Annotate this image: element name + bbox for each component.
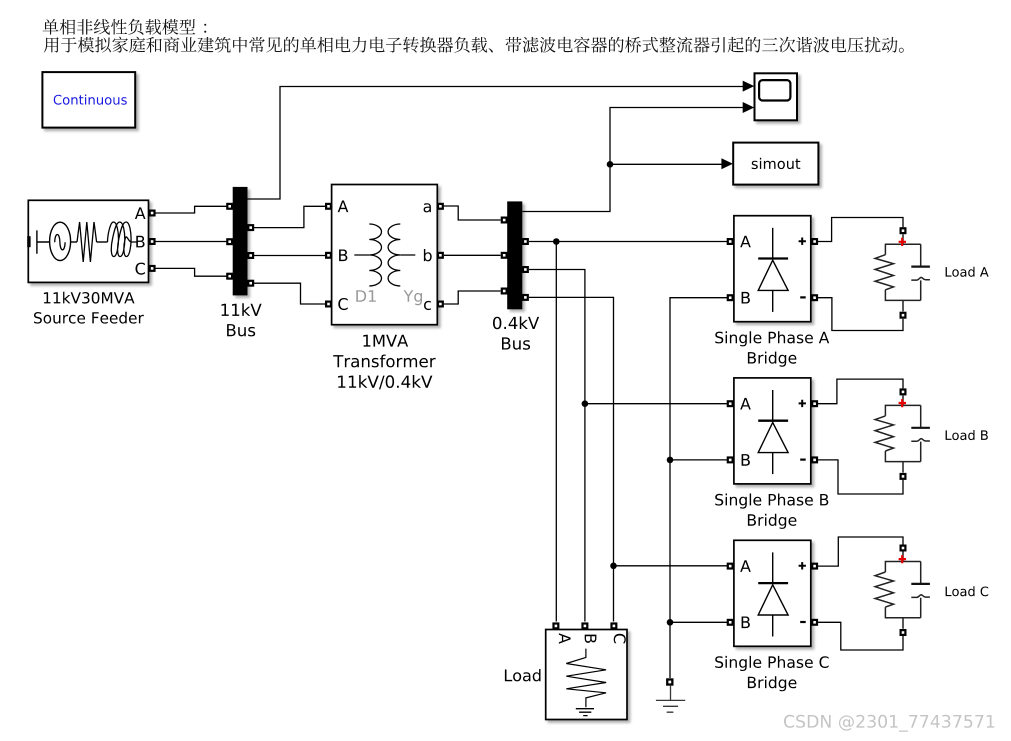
wire neutral to Bridge B <box>670 459 727 461</box>
junction simout branch <box>607 161 614 168</box>
transformer 1MVA 11kV/0.4kV <box>325 185 444 325</box>
junction phase c <box>610 563 617 570</box>
node title line 1 <box>43 19 207 35</box>
wire transformer c to 0.4kV bus <box>444 291 501 304</box>
powergui Continuous block <box>42 72 135 128</box>
wire phase c to Bridge C <box>614 565 728 567</box>
wire transformer b to 0.4kV bus <box>444 254 501 256</box>
wire 11kV bus to transformer B <box>254 255 325 257</box>
wire neutral to Bridge C <box>670 621 727 623</box>
junction phase b <box>582 400 589 407</box>
wire Load A - to Bridge A - <box>818 298 903 331</box>
wire 0.4kV bus to Scope input 2 <box>522 108 743 212</box>
node source label <box>34 292 144 324</box>
wire phase b to Bridge B <box>585 403 727 405</box>
wire neutral from Bridge A B to ground <box>670 298 727 678</box>
junction neutral B <box>667 457 674 464</box>
wire Bridge C + to Load C <box>818 537 903 566</box>
sink simout <box>721 143 818 185</box>
node 0.4kV Bus label <box>493 316 539 349</box>
node watermark <box>784 715 994 732</box>
wire phase b to Load <box>529 270 585 622</box>
wire source B to 11kV bus <box>155 241 226 243</box>
ground <box>656 678 685 712</box>
wire phase c to Load <box>529 297 614 621</box>
node bridge A label <box>715 331 829 366</box>
wire transformer a to 0.4kV bus <box>444 206 501 220</box>
bus 0.4kV Bus <box>501 201 529 309</box>
wire branch to simout <box>610 163 722 165</box>
node bridge B label <box>715 494 828 529</box>
node Load A label <box>946 267 989 277</box>
wire 11kV bus to transformer C <box>254 283 325 304</box>
wire Load C - to Bridge C - <box>818 622 903 650</box>
wire Bridge B + to Load B <box>818 379 903 404</box>
rectifier Single Phase A Bridge <box>727 216 818 322</box>
node 11kV Bus label <box>222 303 262 336</box>
wire Bridge A + to Load A <box>818 218 903 242</box>
load RLC Load B <box>875 388 930 480</box>
bus 11kV Bus <box>226 187 254 296</box>
rectifier Single Phase B Bridge <box>727 378 818 484</box>
wire source C to 11kV bus <box>155 268 226 276</box>
load RLC Load C <box>875 545 930 637</box>
load three-phase Load block <box>546 622 627 719</box>
junction neutral C <box>667 619 674 626</box>
node bridge C label <box>715 656 828 691</box>
wire 11kV bus to transformer A <box>254 206 325 227</box>
node title line 2 <box>44 37 904 53</box>
scope Scope <box>743 73 797 120</box>
wire Load B - to Bridge B - <box>818 460 903 494</box>
wire source A to 11kV bus <box>155 206 226 213</box>
node Load block label <box>505 669 541 681</box>
load RLC Load A <box>875 227 930 319</box>
junction phase a <box>553 238 560 245</box>
node Load C label <box>946 586 989 596</box>
wire phase a to Bridge A <box>529 241 727 243</box>
node transformer label <box>333 335 435 390</box>
source 11kV30MVA Source Feeder <box>27 200 155 282</box>
rectifier Single Phase C Bridge <box>727 540 818 646</box>
node Load B label <box>946 430 988 440</box>
wire phase a down to Load <box>555 242 557 622</box>
wire 11kV bus to Scope input 1 <box>248 87 744 200</box>
